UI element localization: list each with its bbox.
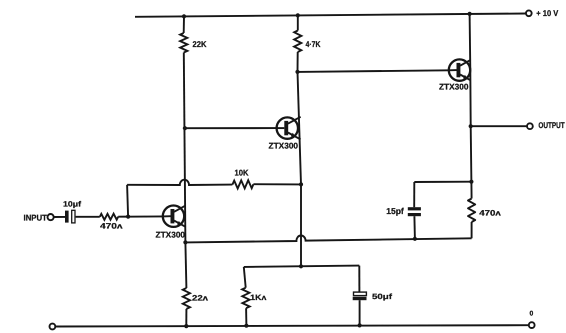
svg-text:15pf: 15pf [386,206,404,216]
svg-text:10μf: 10μf [63,199,82,208]
svg-text:OUTPUT: OUTPUT [538,120,564,130]
svg-text:0: 0 [530,310,534,317]
svg-text:470ʌ: 470ʌ [479,209,501,218]
svg-text:ZTX300: ZTX300 [269,140,299,150]
svg-text:INPUT: INPUT [24,212,47,222]
svg-text:ZTX300: ZTX300 [156,230,186,240]
svg-text:4·7K: 4·7K [306,39,321,49]
svg-text:ZTX300: ZTX300 [439,81,469,91]
svg-text:470ʌ: 470ʌ [100,221,123,230]
svg-text:50μf: 50μf [372,292,393,301]
svg-text:22ʌ: 22ʌ [192,294,209,303]
svg-text:10K: 10K [235,168,249,178]
svg-text:22K: 22K [193,39,207,49]
svg-text:1Kʌ: 1Kʌ [250,293,267,302]
svg-text:+ 10 V: + 10 V [536,8,558,18]
